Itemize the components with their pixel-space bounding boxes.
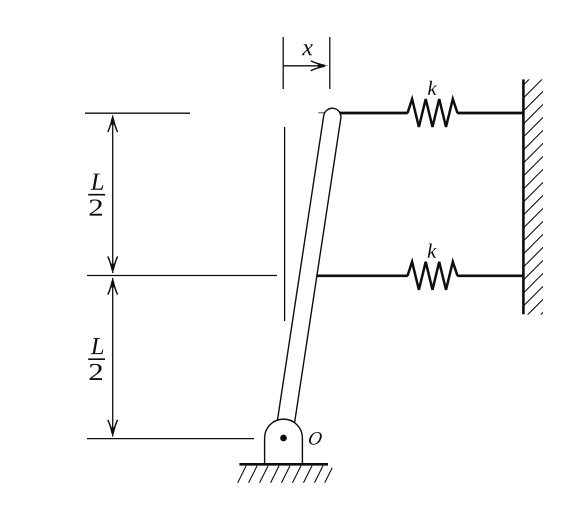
top reference line <box>85 112 190 114</box>
label O <box>308 432 322 445</box>
label x <box>302 44 313 55</box>
dimension tick right (x displacement) <box>329 37 331 89</box>
label L/2 lower <box>88 338 105 380</box>
pivot point O (dot) <box>280 435 287 442</box>
arrow x (horizontal dimension arrow) <box>283 61 328 71</box>
ground hatching <box>238 466 333 483</box>
spring k lower: zigzag <box>408 262 458 290</box>
dimension arrow L/2 upper (double headed) <box>108 114 118 274</box>
spring k lower: connecting line from zigzag to wall <box>457 274 523 277</box>
middle reference line <box>87 275 277 277</box>
spring k upper: connecting line from zigzag to wall <box>457 112 523 115</box>
spring k upper: zigzag <box>408 99 458 127</box>
spring k upper: connecting line from rod to zigzag <box>340 112 408 115</box>
label k upper <box>428 81 437 95</box>
ground line <box>239 463 328 466</box>
label L/2 upper <box>88 174 105 216</box>
vertical reference line (undeflected rod axis) <box>284 127 286 321</box>
dimension arrow L/2 lower (double headed) <box>108 277 118 437</box>
spring k lower: connecting line from rod to zigzag <box>316 274 408 277</box>
wall line <box>522 79 525 314</box>
dimension tick left (x displacement) <box>282 37 284 89</box>
rod (tilted bar with rounded top cap) <box>275 108 341 439</box>
spring k upper: faint stub left of rod cap <box>318 112 326 114</box>
label k lower <box>428 243 437 257</box>
wall hatching <box>523 65 543 332</box>
bottom reference line <box>87 438 254 440</box>
pivot support (dome) <box>265 419 303 463</box>
